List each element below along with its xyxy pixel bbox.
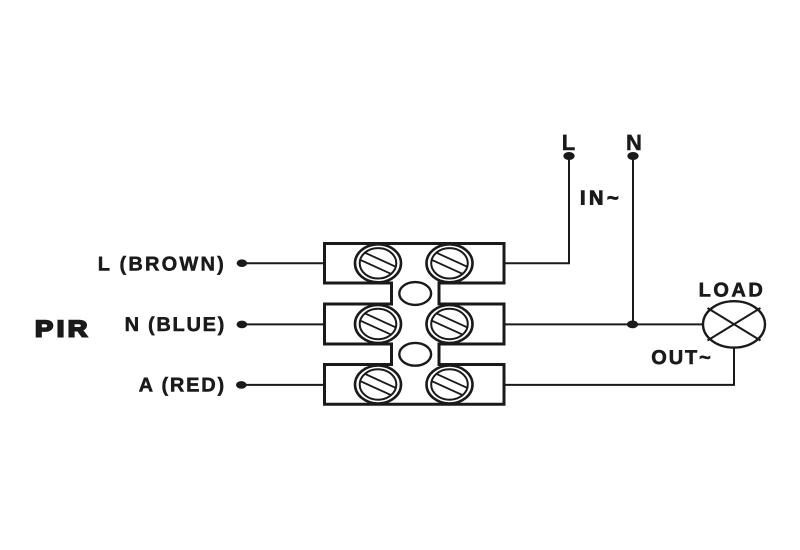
screw terminal row3 left	[354, 366, 403, 404]
svg-text:L: L	[562, 130, 575, 155]
wire A(RED) row3 left	[241, 384, 326, 386]
node dot row3 left	[236, 381, 247, 389]
connector hole lower	[399, 343, 431, 366]
svg-text:PIR: PIR	[35, 316, 91, 342]
wire row2 right to lamp	[504, 323, 704, 325]
svg-text:IN~: IN~	[580, 188, 622, 210]
junction dot N to lamp	[627, 321, 638, 329]
svg-text:L (BROWN): L (BROWN)	[98, 254, 226, 276]
node dot L terminal	[563, 152, 574, 160]
wire L(BROWN) row1 left	[242, 262, 326, 264]
svg-text:N (BLUE): N (BLUE)	[125, 314, 226, 336]
wire row3 right to lamp bottom	[504, 347, 734, 385]
node dot N terminal	[627, 152, 638, 160]
screw terminal row1 right	[425, 244, 474, 282]
node dot row2 left	[237, 321, 248, 329]
svg-text:OUT~: OUT~	[651, 347, 713, 369]
screw terminal row3 right	[425, 366, 474, 404]
wire N(BLUE) row2 left	[242, 323, 326, 325]
terminal block outline	[325, 244, 505, 405]
svg-text:A (RED): A (RED)	[139, 375, 226, 397]
connector hole upper	[399, 282, 431, 305]
screw terminal row1 left	[354, 244, 403, 282]
screw terminal row2 right	[425, 305, 474, 343]
lamp LOAD symbol	[703, 301, 765, 347]
wire N input: down from N terminal to junction	[632, 156, 634, 324]
wire L input: down from L terminal then left to row1	[504, 156, 569, 263]
node dot row1 left	[237, 259, 248, 267]
screw terminal row2 left	[354, 305, 403, 343]
svg-text:LOAD: LOAD	[699, 280, 766, 302]
svg-text:N: N	[626, 130, 642, 155]
